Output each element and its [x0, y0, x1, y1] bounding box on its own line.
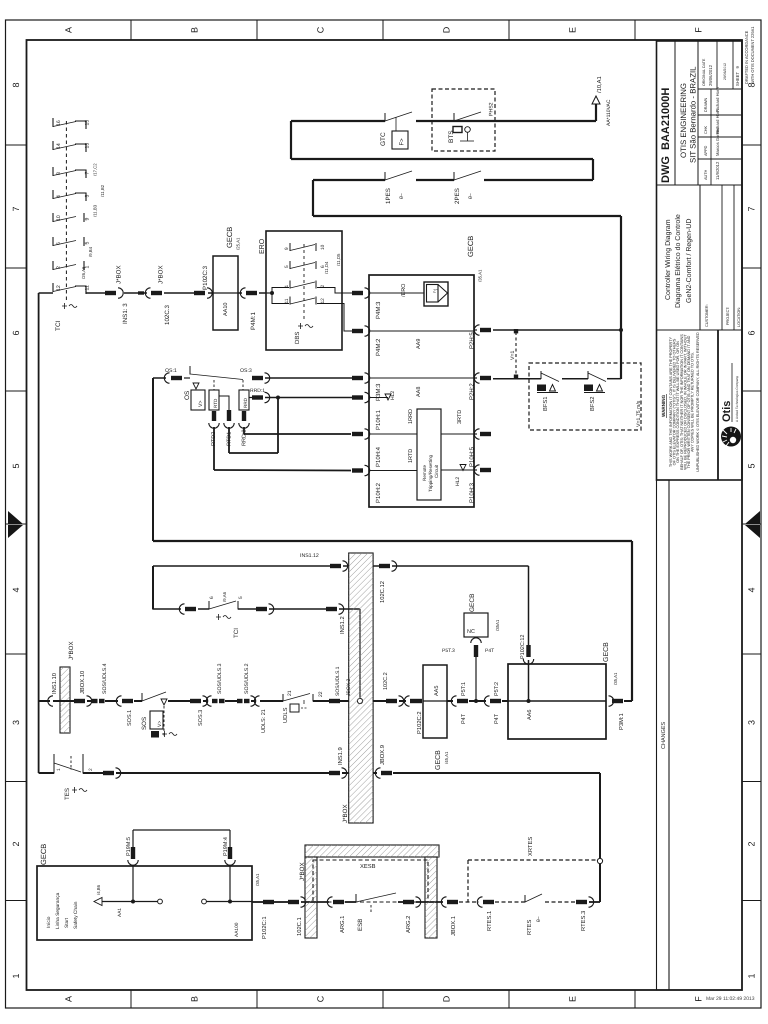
svg-text:ARG.2: ARG.2 [405, 916, 412, 933]
svg-text:TES: TES [64, 788, 71, 800]
svg-text:B: B [190, 996, 200, 1002]
svg-text:F: F [694, 27, 704, 33]
svg-text:P102C:12: P102C:12 [520, 635, 526, 659]
svg-text:Linha Segurança: Linha Segurança [55, 892, 61, 929]
svg-text:SOS: SOS [141, 717, 148, 730]
svg-text:J*BOX: J*BOX [342, 804, 349, 823]
svg-text:OS: OS [184, 390, 191, 400]
svg-text:RTD: RTD [213, 398, 218, 408]
svg-text:10: 10 [320, 244, 326, 250]
svg-text:WARNING: WARNING [661, 394, 666, 417]
svg-text:6: 6 [747, 330, 757, 335]
svg-text:GeN2-Comfort / Regen-UD: GeN2-Comfort / Regen-UD [685, 219, 693, 303]
svg-text:P19M:4: P19M:4 [223, 837, 229, 856]
svg-text:/11,B3: /11,B3 [93, 204, 98, 217]
svg-text:SHEET 9: SHEET 9 [735, 66, 740, 86]
svg-text:B: B [190, 27, 200, 33]
svg-text:RTD1: RTD1 [227, 432, 233, 446]
svg-text:AA8: AA8 [416, 387, 422, 397]
svg-text:D: D [442, 26, 452, 33]
svg-text:BFS1: BFS1 [542, 397, 549, 412]
svg-text:ERO: ERO [259, 238, 266, 254]
svg-text:11: 11 [85, 285, 91, 290]
svg-text:7: 7 [747, 206, 757, 211]
svg-text:OTIS ENGINEERING: OTIS ENGINEERING [679, 83, 688, 158]
svg-text:Início: Início [46, 916, 52, 928]
svg-text:E: E [568, 27, 578, 33]
svg-text:AA10: AA10 [223, 303, 229, 316]
svg-text:F>: F> [399, 138, 406, 146]
svg-text:GECB: GECB [469, 594, 476, 612]
svg-text:CHANGES: CHANGES [661, 721, 667, 749]
svg-text:AUTH: AUTH [704, 169, 708, 180]
svg-text:DRAFTED IN ACCORDANCE: DRAFTED IN ACCORDANCE [744, 30, 749, 84]
svg-text:P5T:2: P5T:2 [494, 682, 500, 696]
svg-text:29/06/2012: 29/06/2012 [723, 63, 727, 80]
svg-text:UNPUBLISHED WORK © OTIS ELEVAT: UNPUBLISHED WORK © OTIS ELEVATOR COMPANY… [696, 332, 700, 472]
svg-text:12: 12 [320, 298, 326, 304]
svg-text:UDLS: 21: UDLS: 21 [261, 709, 267, 733]
svg-text:TCI: TCI [233, 628, 240, 638]
svg-text:SIT São Bernardo - BRAZIL: SIT São Bernardo - BRAZIL [689, 66, 698, 163]
svg-text:HL2: HL2 [455, 477, 461, 486]
svg-text:2: 2 [88, 768, 94, 771]
svg-text:INS1.9: INS1.9 [337, 747, 344, 765]
svg-text:P10H:2: P10H:2 [375, 482, 382, 503]
svg-text:/45,A1: /45,A1 [444, 751, 449, 764]
svg-text:1: 1 [747, 973, 757, 978]
svg-text:1PES: 1PES [385, 188, 392, 204]
svg-text:9: 9 [284, 247, 290, 250]
svg-text:5: 5 [238, 596, 244, 599]
svg-text:C: C [316, 995, 326, 1002]
svg-text:/11,D5: /11,D5 [336, 253, 341, 266]
svg-text:P4M:2: P4M:2 [375, 338, 382, 356]
svg-text:102C.2: 102C.2 [383, 672, 389, 690]
svg-text:5: 5 [747, 463, 757, 468]
svg-text:AA1: AA1 [117, 908, 123, 917]
svg-text:P4T: P4T [461, 713, 467, 724]
svg-text:7: 7 [11, 206, 21, 211]
svg-text:P5T.3: P5T.3 [442, 648, 455, 654]
svg-text:ORIGINAL DATE: ORIGINAL DATE [702, 58, 706, 86]
svg-text:V=1: V=1 [510, 351, 516, 360]
svg-text:102C.3: 102C.3 [164, 304, 171, 325]
svg-text:4: 4 [11, 587, 21, 592]
svg-text:Mar 29 11:02:49 2013: Mar 29 11:02:49 2013 [706, 996, 755, 1002]
svg-text:29/06/2012: 29/06/2012 [708, 64, 713, 86]
svg-text:5: 5 [284, 265, 290, 268]
svg-text:RRD:1: RRD:1 [250, 388, 265, 394]
svg-text:Controller Wiring Diagram: Controller Wiring Diagram [664, 219, 672, 300]
svg-text:ARG.1: ARG.1 [339, 916, 346, 933]
svg-text:1: 1 [56, 768, 62, 771]
svg-text:AA9: AA9 [416, 339, 422, 349]
svg-text:Diagrama Elétrico do Controle: Diagrama Elétrico do Controle [674, 214, 682, 308]
svg-text:Otis: Otis [721, 401, 733, 422]
svg-text:V>: V> [157, 721, 163, 727]
svg-text:Start: Start [64, 917, 70, 928]
svg-text:L2: L2 [433, 288, 439, 294]
svg-text:RRD: RRD [243, 397, 248, 408]
svg-text:P5T:1: P5T:1 [461, 682, 467, 696]
svg-text:V>: V> [198, 401, 204, 408]
svg-text:/11,D4: /11,D4 [324, 261, 329, 274]
svg-text:HL2: HL2 [390, 391, 396, 400]
svg-text:JBOX.9: JBOX.9 [379, 745, 386, 765]
svg-text:1: 1 [11, 973, 21, 978]
svg-text:INS1.2: INS1.2 [339, 616, 346, 634]
svg-text:SOS/UDLS.3: SOS/UDLS.3 [217, 663, 223, 694]
svg-text:4: 4 [747, 587, 757, 592]
svg-text:/26,A6: /26,A6 [81, 266, 86, 279]
svg-text:XESB: XESB [360, 863, 376, 870]
svg-text:/17,C2: /17,C2 [93, 163, 98, 176]
svg-text:9: 9 [85, 218, 91, 221]
svg-text:J*BOX: J*BOX [158, 265, 165, 284]
svg-text:BFS2: BFS2 [589, 397, 596, 412]
svg-text:2PES: 2PES [454, 188, 461, 204]
svg-text:BTS: BTS [448, 130, 455, 143]
svg-text:P3M:1: P3M:1 [618, 713, 625, 730]
svg-text:6: 6 [11, 330, 21, 335]
svg-text:6: 6 [209, 596, 215, 599]
svg-text:A: A [64, 996, 74, 1002]
svg-text:15: 15 [85, 120, 91, 126]
svg-text:A United Technologies Company: A United Technologies Company [735, 376, 739, 422]
svg-text:SOS/UDLS.1: SOS/UDLS.1 [335, 666, 341, 696]
svg-text:P102C:2: P102C:2 [416, 711, 423, 734]
svg-text:5: 5 [11, 463, 21, 468]
svg-text:GECB: GECB [603, 642, 610, 662]
svg-text:E: E [568, 996, 578, 1002]
svg-text:P102C:1: P102C:1 [261, 916, 268, 939]
svg-text:5: 5 [85, 242, 91, 245]
svg-text:P3M:3: P3M:3 [375, 383, 382, 401]
svg-text:3: 3 [85, 195, 91, 198]
svg-text:P4M:1: P4M:1 [250, 312, 257, 330]
svg-text:LOCATION:: LOCATION: [737, 307, 741, 327]
svg-text:/9,A6: /9,A6 [222, 591, 227, 602]
svg-text:13: 13 [85, 143, 91, 149]
svg-text:SOS.3: SOS.3 [198, 710, 204, 726]
svg-text:1RTD: 1RTD [408, 449, 414, 463]
svg-text:3: 3 [11, 720, 21, 725]
svg-text:TCI: TCI [55, 320, 62, 331]
svg-text:J*BOX: J*BOX [299, 862, 306, 881]
svg-text:P4M:3: P4M:3 [375, 301, 382, 319]
svg-text:GECB: GECB [39, 844, 48, 865]
svg-text:INS1.10: INS1.10 [51, 673, 58, 694]
svg-text:3: 3 [747, 720, 757, 725]
svg-text:ESB: ESB [357, 919, 364, 931]
svg-text:V=1,75 m/s: V=1,75 m/s [636, 400, 642, 427]
svg-text:Marcos Gomes: Marcos Gomes [715, 128, 720, 156]
svg-text:Tripping/Resetting: Tripping/Resetting [428, 454, 433, 492]
svg-text:JBOX.10: JBOX.10 [79, 671, 86, 694]
svg-text:/35,A1: /35,A1 [255, 873, 260, 886]
svg-text:RRD:2: RRD:2 [242, 429, 248, 446]
svg-text:Safety Chain: Safety Chain [73, 901, 79, 929]
svg-text:PROJECT:: PROJECT: [726, 307, 730, 325]
svg-text:11: 11 [284, 298, 290, 303]
svg-text:P10H:3: P10H:3 [469, 482, 476, 503]
svg-text:3RTD: 3RTD [457, 410, 463, 424]
svg-text:21: 21 [287, 690, 293, 696]
svg-text:J*BOX: J*BOX [116, 265, 123, 284]
svg-text:RTES.3: RTES.3 [580, 911, 587, 931]
svg-text:PHS2: PHS2 [489, 102, 495, 116]
svg-text:P10H:1: P10H:1 [375, 409, 382, 430]
svg-text:GECB: GECB [435, 750, 442, 770]
svg-text:AA6: AA6 [527, 710, 533, 720]
svg-text:/35,A1: /35,A1 [478, 269, 483, 282]
svg-text:GECB: GECB [225, 227, 234, 248]
svg-text:SOS/UDLS.2: SOS/UDLS.2 [244, 663, 250, 694]
svg-text:DWG BAA21000H: DWG BAA21000H [660, 88, 672, 183]
svg-text:D: D [442, 995, 452, 1002]
svg-text:P102C:3: P102C:3 [202, 265, 209, 290]
svg-text:WITH OTIS DOCUMENT 229A1: WITH OTIS DOCUMENT 229A1 [750, 26, 755, 84]
svg-text:P10H:4: P10H:4 [375, 446, 382, 467]
svg-text:102C.12: 102C.12 [379, 581, 386, 603]
svg-text:/35A1: /35A1 [495, 619, 500, 631]
svg-text:RTD2: RTD2 [211, 432, 217, 446]
svg-text:7: 7 [85, 172, 91, 175]
svg-text:P4T: P4T [485, 648, 494, 654]
svg-text:F: F [694, 996, 704, 1002]
svg-text:/4,B6: /4,B6 [96, 884, 101, 895]
svg-text:/35,A1: /35,A1 [613, 672, 618, 685]
svg-text:/25,A1: /25,A1 [236, 237, 241, 250]
svg-text:22: 22 [318, 691, 324, 697]
svg-text:JBOX.1: JBOX.1 [450, 916, 457, 936]
svg-text:AA5: AA5 [434, 686, 440, 696]
svg-text:θ~: θ~ [536, 916, 542, 922]
svg-text:/10,A1: /10,A1 [596, 76, 603, 93]
svg-text:P2H:2: P2H:2 [469, 383, 476, 400]
svg-text:ANY COPIES WILL BE PROMPTLY RE: ANY COPIES WILL BE PROMPTLY RETURNED TO … [691, 352, 695, 452]
svg-text:P19M:5: P19M:5 [126, 837, 132, 856]
svg-text:Circuit: Circuit [434, 464, 439, 478]
svg-text:RTES.1: RTES.1 [486, 911, 493, 931]
svg-text:C: C [316, 26, 326, 33]
svg-text:P4T: P4T [494, 713, 500, 724]
svg-text:SOS.1: SOS.1 [127, 710, 133, 726]
svg-text:XRTES: XRTES [527, 837, 534, 856]
svg-text:/ERO: /ERO [401, 283, 407, 297]
svg-text:INS1: 3: INS1: 3 [122, 303, 129, 324]
svg-text:2: 2 [747, 841, 757, 846]
svg-text:P10H:5: P10H:5 [469, 446, 476, 467]
svg-text:AA*110VAC: AA*110VAC [606, 99, 612, 126]
svg-text:APPD: APPD [704, 145, 708, 156]
svg-text:P2H:5: P2H:5 [469, 332, 476, 349]
svg-text:CUSTOMER:: CUSTOMER: [705, 304, 709, 327]
svg-text:8: 8 [11, 82, 21, 87]
svg-text:θ~: θ~ [468, 193, 474, 199]
svg-text:1RRD: 1RRD [408, 409, 414, 424]
svg-text:102C.1: 102C.1 [296, 917, 303, 936]
svg-text:SOS/UDLS.4: SOS/UDLS.4 [102, 663, 108, 694]
svg-text:GTC: GTC [380, 132, 387, 146]
svg-text:OS:3: OS:3 [240, 368, 252, 374]
svg-text:DRAWN: DRAWN [704, 98, 708, 112]
svg-text:J*BOX: J*BOX [68, 641, 75, 660]
svg-text:11/9/2012: 11/9/2012 [715, 161, 720, 180]
svg-text:θ~: θ~ [399, 193, 405, 199]
svg-text:CHK: CHK [704, 126, 708, 134]
svg-text:UDLS: UDLS [282, 707, 289, 723]
svg-text:OS:1: OS:1 [165, 368, 177, 374]
svg-text:DBS: DBS [294, 332, 301, 344]
svg-text:GECB: GECB [466, 236, 475, 257]
svg-text:NC: NC [467, 629, 475, 635]
svg-text:A: A [64, 27, 74, 33]
svg-text:/9,B4: /9,B4 [88, 246, 93, 257]
svg-text:AA100: AA100 [234, 922, 240, 937]
svg-text:INS1.12: INS1.12 [300, 553, 319, 559]
svg-text:/11,B2: /11,B2 [100, 184, 105, 197]
svg-text:RTES: RTES [526, 920, 533, 935]
svg-text:Remote: Remote [422, 464, 427, 481]
svg-text:Richard Horn: Richard Horn [715, 87, 720, 112]
svg-text:2: 2 [11, 841, 21, 846]
